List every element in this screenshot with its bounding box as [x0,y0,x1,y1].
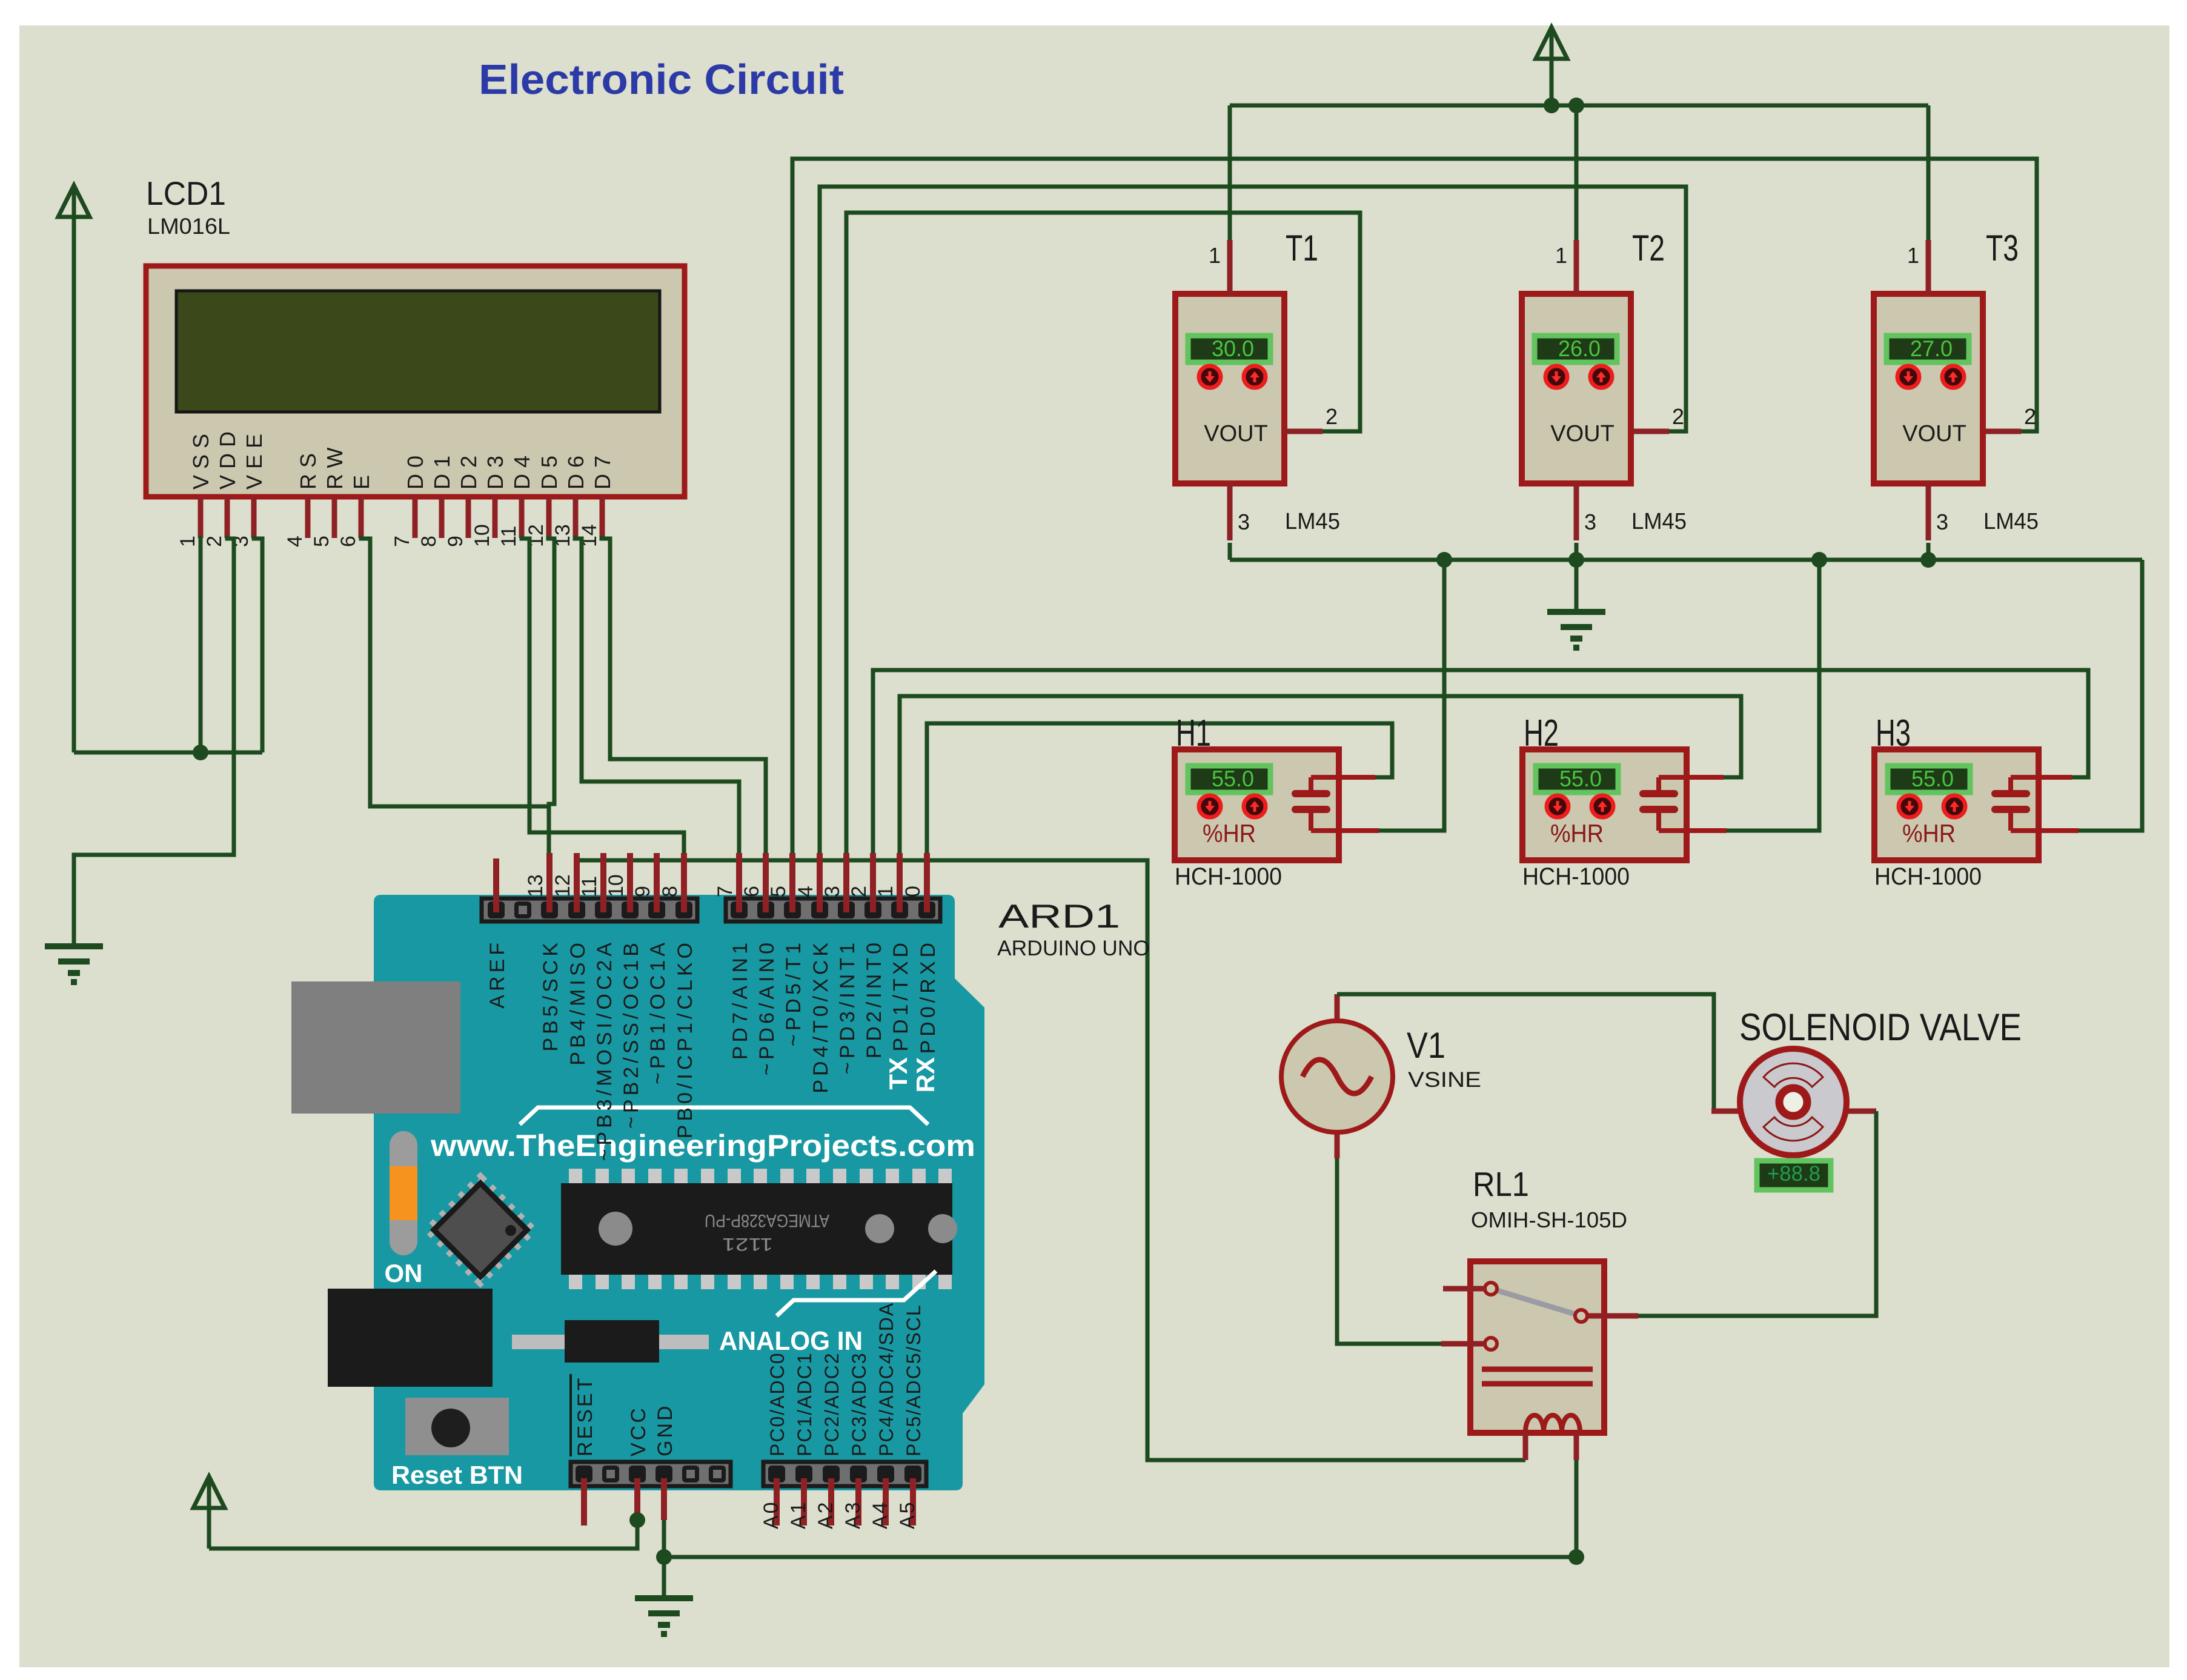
svg-text:RX: RX [911,1057,940,1092]
svg-text:PD1/TXD: PD1/TXD [889,939,912,1052]
svg-text:1: 1 [1907,243,1919,268]
svg-text:3: 3 [1238,510,1250,534]
svg-text:Reset BTN: Reset BTN [391,1461,523,1489]
LCD1 pin number labels 1-14 [176,524,601,547]
svg-text:~PD5/T1: ~PD5/T1 [782,939,805,1046]
svg-text:3: 3 [1584,510,1596,534]
svg-text:10: 10 [471,524,494,547]
humidity sensor H3 HCH-1000 [1874,749,2039,860]
svg-text:1: 1 [1209,243,1221,268]
svg-text:2: 2 [1326,404,1338,429]
H2 up button [1591,795,1613,817]
svg-text:%HR: %HR [1902,819,1956,848]
wire LCD D5 to ARD1 pin13 [548,536,554,855]
svg-text:D7: D7 [590,450,615,490]
svg-text:8: 8 [417,536,440,547]
power symbol top center [1536,27,1567,105]
svg-text:D6: D6 [563,450,588,490]
junction node at LCD pin1 [193,745,208,760]
svg-text:H2: H2 [1524,712,1559,754]
wire LCD pin2 VDD to ground [74,536,234,946]
svg-text:www.TheEngineeringProjects.com: www.TheEngineeringProjects.com [430,1129,975,1163]
svg-text:11: 11 [578,876,601,897]
ground symbol bottom [635,1598,693,1634]
wire VCC pin to power arrow [209,1520,637,1549]
H3 %HR label [1902,819,1956,848]
ARD1 website text [430,1107,975,1163]
svg-text:AREF: AREF [486,939,509,1009]
svg-text:T1: T1 [1286,228,1318,268]
svg-text:PC0/ADC0: PC0/ADC0 [766,1352,788,1457]
ARD1 power jack [328,1289,493,1387]
svg-text:5: 5 [310,536,333,547]
svg-text:9: 9 [631,886,654,897]
H3 capacitor symbol [1995,777,2079,831]
svg-text:+88.8: +88.8 [1767,1162,1820,1186]
svg-text:PC5/ADC5/SCL: PC5/ADC5/SCL [903,1304,924,1456]
T3 up button [1942,366,1964,388]
svg-text:ARD1: ARD1 [998,897,1120,935]
svg-text:26.0: 26.0 [1558,336,1601,361]
svg-text:PC3/ADC3: PC3/ADC3 [848,1352,870,1457]
H1 display value 55.0 [1188,766,1270,792]
RL1 labels [1471,1165,1627,1232]
solenoid valve motor symbol [1711,1049,1876,1155]
svg-text:9: 9 [444,536,467,547]
wire T2 pin1 drop [1575,105,1579,241]
ARD1 ATMEGA328P chip U1 [561,1169,957,1289]
wire T1 VOUT to ARD1 pin3 rail y351 [846,213,1360,855]
svg-text:D1: D1 [430,450,454,490]
svg-text:55.0: 55.0 [1212,766,1254,791]
svg-text:HCH-1000: HCH-1000 [1175,863,1282,890]
svg-text:7: 7 [391,536,414,547]
T2 up button [1590,366,1612,388]
relay RL1 OMIH-SH-105D [1441,1261,1638,1460]
wire LCD D7 to ARD1 pin6 [602,536,766,855]
svg-text:TX: TX [884,1057,912,1090]
T3 down button [1897,366,1919,388]
H3 down button [1899,795,1920,817]
ARD1 digital header right (7..0) [726,898,940,921]
svg-text:VEE: VEE [242,428,267,490]
svg-text:D4: D4 [509,450,534,490]
wire ARD1 pin1 to H2 rail y1149 [900,696,1741,855]
wire LCD D4 to ARD1 pin8 [522,536,684,855]
svg-text:~PD6/AIN0: ~PD6/AIN0 [755,939,778,1075]
svg-text:PD7/AIN1: PD7/AIN1 [729,939,752,1060]
humidity sensor H1 HCH-1000 [1175,749,1339,860]
ARD1 SMD chip [428,1178,533,1282]
svg-text:%HR: %HR [1203,819,1256,848]
svg-text:1: 1 [1555,243,1567,268]
wire H3 cap bottom drop [2077,560,2142,831]
svg-text:PB0/ICP1/CLKO: PB0/ICP1/CLKO [674,939,697,1138]
LCD1 pin stubs 1-14 [201,497,602,538]
svg-text:RW: RW [322,442,347,490]
ground symbol on GND rail [1547,560,1605,648]
H2 down button [1547,795,1568,817]
T2 pin numbers [1555,243,1684,534]
svg-text:6: 6 [740,886,763,897]
ARD1 top pin number labels 13..8 and 7..0 [524,874,924,897]
svg-text:2: 2 [848,886,871,897]
svg-text:7: 7 [714,886,737,897]
junction GND rail / T3 pin3 [1920,552,1936,568]
H1 HCH-1000 label [1175,863,1282,890]
svg-text:RS: RS [296,447,320,490]
svg-text:PC2/ADC2: PC2/ADC2 [821,1352,843,1457]
svg-text:V1: V1 [1407,1025,1445,1066]
H1 up button [1244,795,1266,817]
wire solenoid valve to relay common [1638,1111,1876,1316]
svg-text:Electronic Circuit: Electronic Circuit [479,56,844,103]
svg-text:1121: 1121 [722,1234,773,1254]
svg-text:PC1/ADC1: PC1/ADC1 [794,1352,815,1457]
T3 LM45 label [1983,509,2039,534]
svg-text:LM45: LM45 [1631,509,1687,534]
wire T3 VOUT to ARD1 pin5 rail y262 [792,159,2037,855]
svg-text:D0: D0 [403,450,428,490]
wire power rail to LCD pins 1,3 [74,751,262,755]
LCD1 pin name labels [188,425,615,490]
wire VCC rail y174 [1230,104,1928,108]
svg-text:27.0: 27.0 [1910,336,1953,361]
wire ARD1 pin0 to H1 rail y1194 [927,723,1392,855]
svg-text:3: 3 [1936,510,1948,534]
svg-text:VDD: VDD [215,425,240,490]
svg-text:A5: A5 [896,1500,919,1529]
ARD1 reference labels [997,897,1150,960]
wire V1 bottom to relay contact [1337,1158,1441,1344]
svg-text:4: 4 [284,536,307,547]
ARD1 digital header left (AREF..8) [482,898,697,921]
ARD1 bottom pin stubs [584,1478,913,1526]
voltage source V1 VSINE [1281,994,1393,1158]
svg-text:0: 0 [901,886,924,897]
ARD1 bottom header RESET/VCC/GND [571,1462,731,1486]
wire relay coil right pin to GND rail [1575,1459,1579,1557]
svg-text:H3: H3 [1876,712,1911,754]
H2 capacitor symbol [1643,777,1727,831]
H3 up button [1943,795,1965,817]
SOLENOID VALVE label [1739,1006,2022,1049]
wire H1 cap bottom drop [1378,560,1444,831]
wire LCD D6 to ARD1 pin7 [575,536,739,855]
wire T2 pin3 to GND rail [1575,543,1579,560]
ARD1 bottom pin name labels [571,1302,924,1529]
svg-text:A1: A1 [787,1500,810,1529]
svg-text:ANALOG IN: ANALOG IN [719,1326,863,1356]
svg-text:D3: D3 [483,450,508,490]
svg-text:10: 10 [605,874,628,897]
wire T1 pin3 to GND rail [1228,543,1232,560]
svg-text:8: 8 [659,886,682,897]
wire T3 pin1 drop [1926,105,1931,241]
ARD1 top pin name labels [486,939,940,1161]
svg-text:5: 5 [767,886,790,897]
wire ARD1 pin12 to relay RL1 coil [577,855,1525,1460]
svg-text:RL1: RL1 [1473,1165,1529,1204]
ARD1 USB connector [291,981,460,1114]
svg-text:LM016L: LM016L [147,214,230,239]
H1 %HR label [1203,819,1256,848]
H2 HCH-1000 label [1522,863,1630,890]
LCD LCD1 LM016L [146,174,685,497]
svg-text:A4: A4 [869,1500,892,1529]
svg-text:2: 2 [203,536,226,547]
Arduino UNO ARD1 board [374,895,984,1490]
svg-text:ARDUINO UNO: ARDUINO UNO [997,937,1150,960]
svg-text:VOUT: VOUT [1550,421,1615,447]
T2 display value 26.0 [1535,336,1617,362]
humidity sensor H2 HCH-1000 [1522,749,1687,860]
H2 %HR label [1550,819,1604,848]
svg-text:PC4/ADC4/SDA: PC4/ADC4/SDA [875,1302,897,1456]
T2 LM45 label [1631,509,1687,534]
svg-text:2: 2 [1672,404,1684,429]
svg-text:11: 11 [497,526,520,547]
svg-text:A3: A3 [841,1500,865,1529]
ARD1 analog header A0-A5 [763,1462,926,1486]
svg-text:HCH-1000: HCH-1000 [1522,863,1630,890]
power symbol top-left (LCD VDD net) [58,185,90,752]
T3 display value 27.0 [1887,336,1969,362]
ARD1 top pin stubs [496,853,927,912]
T1 LM45 label [1285,509,1340,534]
wire T1 pin1 drop [1228,105,1232,241]
H1 label [1176,712,1211,754]
junction VCC pin [629,1512,645,1528]
wire V1 top to solenoid valve [1337,994,1734,1111]
H2 label [1524,712,1559,754]
svg-text:D2: D2 [456,450,481,490]
svg-text:T3: T3 [1986,228,2019,268]
svg-text:SOLENOID VALVE: SOLENOID VALVE [1739,1006,2022,1049]
svg-text:VSINE: VSINE [1408,1068,1481,1092]
T1 label [1286,228,1318,268]
T1 pin numbers [1209,243,1338,534]
svg-text:12: 12 [551,874,574,897]
junction GND rail / T2 pin3 ground [1568,552,1584,568]
svg-text:ON: ON [385,1259,423,1287]
junction VCC rail / T2 pin1 [1568,98,1584,113]
T2 label [1632,228,1665,268]
svg-text:T2: T2 [1632,228,1665,268]
solenoid valve voltage display +88.8 [1757,1161,1831,1190]
svg-text:A2: A2 [814,1500,837,1529]
wire GND to relay coil rail y2570 [664,1555,1576,1559]
svg-text:VOUT: VOUT [1204,421,1268,447]
svg-text:GND: GND [654,1403,677,1456]
power symbol bottom (VCC) [193,1476,225,1549]
wire T3 pin3 to GND rail [1926,543,1931,560]
ARD1 reset button [391,1398,523,1489]
ground symbol left [45,946,103,982]
junction GND rail / H1 [1436,552,1452,568]
svg-text:D5: D5 [537,450,562,490]
svg-text:VOUT: VOUT [1902,421,1966,447]
ARD1 ANALOG IN bracket [719,1271,936,1356]
junction VCC rail / power arrow [1544,98,1559,113]
svg-text:RESET: RESET [574,1376,597,1456]
svg-text:LCD1: LCD1 [146,174,226,212]
H3 display value 55.0 [1888,766,1970,792]
svg-text:1: 1 [874,886,897,897]
svg-text:4: 4 [794,886,817,897]
svg-text:VSS: VSS [188,428,213,490]
svg-text:HCH-1000: HCH-1000 [1874,863,1982,890]
svg-text:PD2/INT0: PD2/INT0 [863,939,886,1058]
H3 label [1876,712,1911,754]
T2 down button [1545,366,1567,388]
svg-text:VCC: VCC [627,1406,650,1456]
T1 down button [1199,366,1221,388]
svg-text:1: 1 [176,536,199,547]
T3 pin numbers [1907,243,2036,534]
junction relay coil / GND rail [1568,1549,1584,1565]
svg-text:55.0: 55.0 [1559,766,1602,791]
T1 up button [1244,366,1266,388]
T3 label [1986,228,2019,268]
wire GND pin to ground [662,1520,666,1598]
svg-text:13: 13 [524,874,547,897]
svg-text:6: 6 [337,536,360,547]
temperature sensor T3 LM45 [1874,240,2021,540]
H3 HCH-1000 label [1874,863,1982,890]
svg-text:A0: A0 [760,1500,783,1529]
T1 display value 30.0 [1188,336,1270,362]
svg-text:LM45: LM45 [1285,509,1340,534]
svg-text:OMIH-SH-105D: OMIH-SH-105D [1471,1207,1627,1232]
svg-text:55.0: 55.0 [1911,766,1954,791]
svg-text:%HR: %HR [1550,819,1604,848]
wire ARD1 pin2 to H3 rail y1106 [873,670,2088,855]
wire H2 cap bottom drop [1725,560,1819,831]
H1 down button [1199,795,1221,817]
svg-text:~PB1/OC1A: ~PB1/OC1A [646,939,669,1084]
svg-text:PB5/SCK: PB5/SCK [539,939,562,1052]
svg-text:H1: H1 [1176,712,1211,754]
svg-text:~PB2/SS/OC1B: ~PB2/SS/OC1B [620,939,643,1129]
wire LCD E to ARD1 pin13 [361,536,549,806]
wire LCD pin1 VSS [199,536,203,752]
svg-text:30.0: 30.0 [1212,336,1254,361]
V1 labels [1407,1025,1481,1092]
svg-text:E: E [349,469,374,490]
wire GND rail y924 [1230,558,2142,562]
svg-text:~PD3/INT1: ~PD3/INT1 [836,939,859,1074]
svg-text:PD0/RXD: PD0/RXD [917,939,940,1054]
svg-text:PB4/MISO: PB4/MISO [566,939,589,1066]
junction GND pin / relay rail [656,1549,672,1565]
svg-text:2: 2 [2024,404,2036,429]
svg-text:LM45: LM45 [1983,509,2039,534]
H2 display value 55.0 [1536,766,1618,792]
ARD1 crystal X1 [512,1320,709,1363]
H1 capacitor symbol [1295,777,1379,831]
wire LCD pin3 VEE [254,536,262,752]
ARD1 power LED ON [385,1131,423,1287]
svg-text:PD4/T0/XCK: PD4/T0/XCK [809,939,832,1094]
wire T2 VOUT to ARD1 pin4 rail y308 [820,187,1686,855]
svg-text:3: 3 [821,886,844,897]
temperature sensor T1 LM45 [1175,240,1322,540]
svg-text:ATMEGA328P-PU: ATMEGA328P-PU [705,1210,829,1230]
junction GND rail / H2 [1811,552,1827,568]
svg-text:~PB3/MOSI/OC2A: ~PB3/MOSI/OC2A [593,939,616,1161]
temperature sensor T2 LM45 [1522,240,1669,540]
